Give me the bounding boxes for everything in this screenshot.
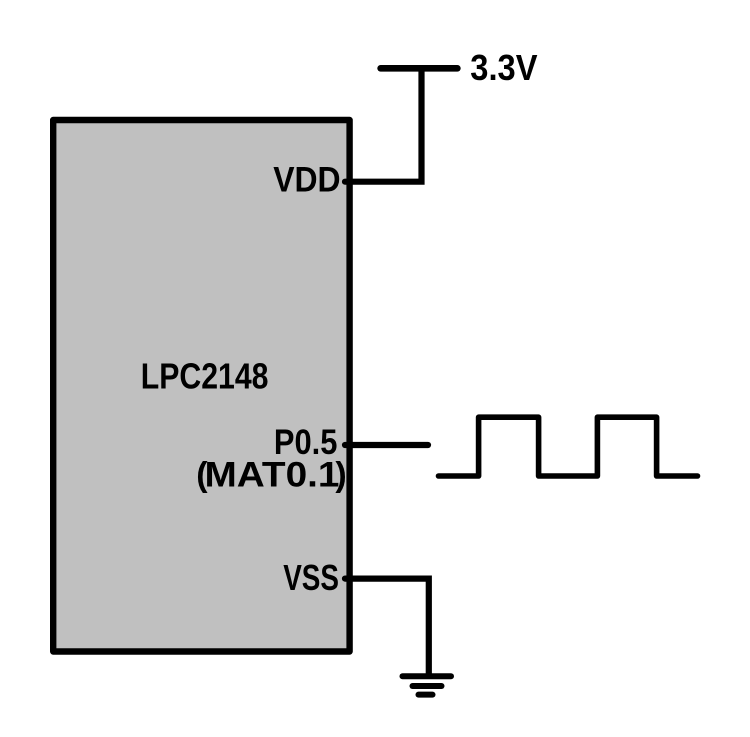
- wire VSS pin to ground: [345, 579, 429, 674]
- svg-text:MAT0.1: MAT0.1: [205, 456, 340, 495]
- power rail bar 3.3V: [381, 65, 458, 72]
- svg-text:VSS: VSS: [283, 557, 339, 598]
- wire P0.5 pin stub: [345, 442, 428, 448]
- svg-text:LPC2148: LPC2148: [141, 355, 269, 396]
- svg-text:VDD: VDD: [273, 160, 340, 199]
- ground symbol: [403, 676, 452, 694]
- square wave signal at P0.5: [439, 417, 698, 476]
- svg-text:): ): [335, 456, 346, 494]
- wire VDD pin to 3.3V rail: [345, 70, 422, 182]
- IC U1 LPC2148 body: [53, 120, 349, 652]
- svg-text:3.3V: 3.3V: [470, 47, 537, 88]
